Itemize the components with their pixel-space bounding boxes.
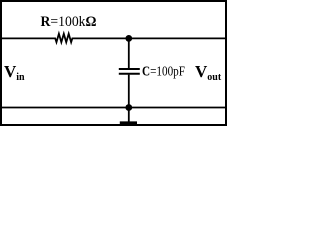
svg-text:C=100pF: C=100pF [142, 65, 185, 80]
svg-text:R=100kΩ: R=100kΩ [41, 14, 97, 30]
